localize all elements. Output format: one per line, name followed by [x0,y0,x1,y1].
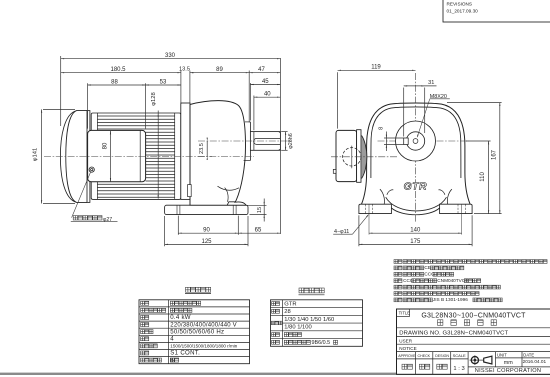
revisions box [443,0,550,22]
svg-text:175: 175 [410,239,421,245]
motor spec table [139,300,250,364]
dim 88 / 53 [87,83,89,128]
svg-text:SCALE: SCALE [453,353,466,358]
sheet bottom edge gray bar [0,373,550,375]
bell foot gusset (side) [225,188,229,202]
gearbox dome outline (front) [362,103,471,204]
svg-text:DESIGN: DESIGN [435,354,449,358]
output boss + shaft circles (front) [396,121,436,161]
dim 330 [60,56,62,126]
motor spec table title [186,287,191,292]
dim 110 right [466,140,491,142]
notes [394,260,398,264]
gland bump on box left [333,169,336,173]
svg-text:90: 90 [203,228,210,234]
dim 180.5 / 13.5 / 89 / 47 [180,71,182,105]
svg-text:φ28h6: φ28h6 [288,133,294,149]
hidden cable hole (dashed circle) [343,148,361,166]
svg-text:USER: USER [399,338,412,343]
svg-text:167: 167 [491,149,497,160]
svg-text:80: 80 [102,142,108,149]
svg-text:8: 8 [379,127,385,130]
reducer spec table [271,300,363,347]
base mounting hole lines [176,205,178,214]
dim 15 (side) [247,204,267,206]
dim 125 bottom [164,216,166,246]
M8 tap hole [413,139,418,144]
svg-text:88: 88 [111,79,118,85]
svg-text:2016.04.01: 2016.04.01 [523,359,547,364]
third angle projection symbol [471,357,478,364]
title block [397,309,550,374]
svg-text:JIS B 1301-1996: JIS B 1301-1996 [433,297,468,302]
svg-text:S1 CONT.: S1 CONT. [170,350,200,357]
svg-text:φ141: φ141 [33,148,39,161]
output shaft centerline [198,140,292,142]
casting parting curve [218,186,240,190]
cable gland circle [89,167,94,172]
svg-text:13.5: 13.5 [179,67,190,73]
svg-text:65: 65 [255,228,262,234]
dim 8 keyway width [384,137,404,139]
svg-text:330: 330 [165,53,176,59]
svg-text:9B6/0.5: 9B6/0.5 [312,340,331,346]
flange bottom lug [188,185,192,197]
dim 175 bottom front [358,215,360,246]
svg-text:CE: CE [424,265,431,270]
svg-text:140: 140 [410,228,421,234]
svg-text:4: 4 [170,336,174,343]
gear adapter flange [181,103,190,199]
svg-text:15: 15 [257,207,263,213]
svg-text:180.5: 180.5 [110,67,126,73]
svg-text:TITLE: TITLE [399,311,411,316]
front view vertical centerline [415,73,417,222]
svg-text:47: 47 [258,67,265,73]
svg-text:125: 125 [201,239,212,245]
gearbox bell housing (side) [190,101,246,206]
svg-text:NISSEI CORPORATION: NISSEI CORPORATION [475,368,542,374]
motor body frame [91,113,181,199]
svg-text:φ128: φ128 [151,92,157,105]
output boss face [249,122,251,161]
dim phi141 [43,108,75,110]
svg-text:1/80 1/100: 1/80 1/100 [284,325,311,331]
svg-text:APPROVE: APPROVE [398,354,416,358]
motor fan cover [60,111,87,203]
svg-text:23.5: 23.5 [199,143,205,154]
svg-text:REVISIONS: REVISIONS [447,1,473,6]
svg-text:B: B [170,358,174,364]
foot pads (front) [359,204,392,213]
dome inner line [371,107,461,178]
dim 40 [253,96,255,131]
svg-text:UNIT: UNIT [497,353,507,358]
bell foot pad (side) [227,202,235,205]
svg-text:01_2017.09.30: 01_2017.09.30 [447,8,479,13]
svg-text:DRAWING NO. G3L28N−CNM040TVCT: DRAWING NO. G3L28N−CNM040TVCT [399,330,508,336]
box mounting pad crescent on dome [362,136,367,179]
svg-text:89: 89 [216,67,223,73]
leg gussets [380,189,385,204]
reducer spec table title [299,288,304,293]
svg-text:G3L28N30~100−CNM040TVCT: G3L28N30~100−CNM040TVCT [421,312,526,319]
dim 140 bottom front [368,204,370,234]
svg-text:CNM040TVCT: CNM040TVCT [437,278,468,283]
svg-text:40: 40 [264,92,271,98]
svg-text:110: 110 [480,172,486,182]
svg-text:1 : 3: 1 : 3 [453,366,464,372]
front motor-axis centerline through terminal box [331,156,397,158]
80 dim inside terminal box [110,131,112,181]
svg-text:mm: mm [504,360,513,366]
dim 23.5 [198,156,212,158]
motor centerline [44,156,254,158]
svg-text:φ27: φ27 [103,217,112,223]
dim 90 / 65 bottom [177,216,179,235]
svg-text:220/380/400/400/440 V: 220/380/400/400/440 V [170,322,237,328]
output shaft (side) [250,132,280,151]
dim 31 keyway [403,88,405,137]
svg-text:GTR: GTR [284,301,296,307]
svg-text:50/50/50/60/60 Hz: 50/50/50/60/60 Hz [170,328,224,335]
motor cooling fins [97,115,174,117]
svg-text:NOTICE: NOTICE [399,346,416,351]
front terminal box [336,130,357,181]
svg-text:0.4 kW: 0.4 kW [170,314,190,321]
svg-text:DATE: DATE [523,353,534,358]
signature columns [414,352,416,375]
svg-text:1/30 1/40 1/50 1/60: 1/30 1/40 1/50 1/60 [284,317,334,323]
gearbox base (side) [165,205,248,214]
foot hole hidden lines [364,204,366,213]
front shaft horizontal centerline [378,140,470,142]
svg-text:1500/1500/1500/1800/1800 r/min: 1500/1500/1500/1800/1800 r/min [170,344,237,349]
dim 167 right [447,102,502,104]
shaft keyway (front) [404,138,409,145]
subtitle 外形寸法図 [438,320,443,326]
dim phi28h6 [281,131,287,133]
cable outlet leader + label [72,172,91,218]
svg-text:CHECK: CHECK [418,354,431,358]
shaft keyway (side) [254,138,281,144]
shaft end chamfers [279,132,281,133]
svg-text:31: 31 [428,80,434,86]
svg-text:53: 53 [160,79,167,85]
svg-text:119: 119 [371,65,381,71]
dim 119 [337,72,339,128]
terminal box (side) [88,130,146,181]
svg-text:45: 45 [262,79,269,85]
svg-text:GTR: GTR [404,182,427,193]
svg-text:28: 28 [284,309,290,315]
dim 45 [249,83,251,121]
arch between feet [386,197,447,211]
